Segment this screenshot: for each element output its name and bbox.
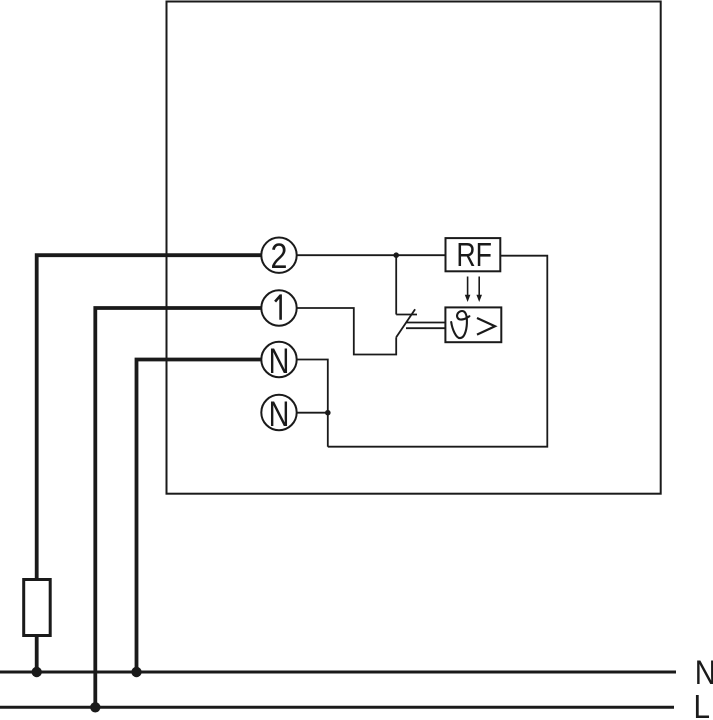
wire: terminal N lower to node <box>297 412 328 414</box>
thermostat box (theta &gt;) <box>445 307 501 342</box>
wire: terminal N to internal N node <box>297 360 328 447</box>
wire: terminal 2 to RF box <box>297 254 446 256</box>
fuse F1 <box>24 580 51 636</box>
junction dot: fuse to N line <box>32 667 42 677</box>
wire: terminal N to N line (thick) <box>137 360 262 673</box>
switch fixed contact tick <box>396 314 417 316</box>
junction dot: wire N to N line <box>131 667 141 677</box>
wire: node down to switch fixed contact <box>395 255 397 314</box>
RF receiver box <box>446 238 501 271</box>
wire: terminal 1 to L line (thick) <box>95 308 261 707</box>
switch blade (relay contact, open) <box>396 309 415 337</box>
junction dot: N node <box>325 410 331 416</box>
svg-text:L: L <box>694 688 711 720</box>
wire: terminal 1 to switch pivot <box>297 308 397 355</box>
thermostat actuator linkage (double line) <box>406 322 445 324</box>
junction dot: wire 1 to L line <box>90 702 100 712</box>
wire: fuse bottom to N line (thick) <box>35 635 39 672</box>
enclosure outline (thermostat device) <box>167 2 661 494</box>
svg-text:N: N <box>269 341 290 381</box>
terminal 1 <box>261 290 296 325</box>
wire: internal N loop to RF box <box>328 256 548 447</box>
terminal 2 <box>261 238 296 273</box>
wire: terminal 2 to external fuse (thick) <box>37 255 261 580</box>
junction dot: node above switch <box>393 252 399 258</box>
svg-text:2: 2 <box>271 237 288 277</box>
svg-text:N: N <box>269 394 290 434</box>
signal arrow 1 (RF to thermostat) <box>467 277 469 296</box>
svg-text:N: N <box>695 653 713 692</box>
svg-text:RF: RF <box>456 237 492 273</box>
terminal N (lower) <box>261 395 296 430</box>
signal arrow 2 (RF to thermostat) <box>478 277 480 296</box>
N supply line <box>0 671 676 674</box>
L supply line <box>0 706 674 709</box>
theta symbol <box>451 311 469 338</box>
greater-than symbol <box>477 318 495 335</box>
terminal N (upper) <box>261 342 296 377</box>
